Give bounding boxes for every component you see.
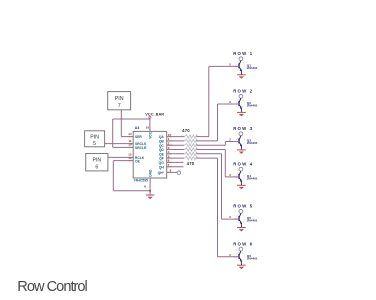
- transistor Q2 2N4401: [236, 98, 245, 112]
- pin 1 stub/wire: [167, 140, 184, 142]
- svg-text:ROW 1: ROW 1: [233, 51, 253, 56]
- pin 6 stub/wire: [167, 161, 184, 163]
- pin stub base Q3: [234, 141, 239, 143]
- pin stub left: [128, 146, 133, 148]
- pin 5 stub/wire: [167, 157, 184, 159]
- row output pin circle ROW 4: [239, 167, 243, 171]
- svg-text:2N4401: 2N4401: [247, 141, 258, 145]
- svg-text:Row Control: Row Control: [17, 279, 88, 295]
- wire PIN7 to IC pin 14 (SER): [121, 110, 133, 137]
- pin 9 QH* stub and open circle: [167, 171, 181, 174]
- pin 15 stub/wire: [167, 136, 184, 138]
- svg-text:16: 16: [146, 126, 150, 130]
- svg-text:U3: U3: [135, 126, 140, 130]
- wire resistor R4 to transistor Q4 base: [196, 150, 239, 177]
- svg-text:470: 470: [187, 161, 195, 166]
- ground symbol (Q1 emitter): [237, 75, 246, 79]
- ground symbol (Q4 emitter): [237, 185, 246, 189]
- ground symbol (Q5 emitter): [237, 228, 246, 232]
- resistor R4 470: [184, 148, 198, 151]
- resistor R5 470: [184, 152, 198, 155]
- svg-text:2N4401: 2N4401: [247, 256, 258, 260]
- svg-text:ROW 6: ROW 6: [233, 241, 253, 246]
- pin stub base Q5: [234, 218, 239, 220]
- svg-text:SER: SER: [135, 135, 142, 139]
- resistor R1 470: [184, 135, 198, 138]
- wire resistor R1 to transistor Q1 base: [196, 66, 239, 136]
- svg-text:QH*: QH*: [158, 171, 165, 175]
- ground symbol under IC: [146, 195, 155, 199]
- svg-text:ROW 5: ROW 5: [233, 204, 253, 209]
- row output pin circle ROW 2: [239, 94, 243, 98]
- resistor R3 470: [184, 144, 198, 147]
- row output pin circle ROW 3: [239, 132, 243, 136]
- row output pin circle ROW 6: [239, 247, 243, 251]
- pin stub left: [128, 156, 133, 158]
- resistor R6 470: [184, 156, 198, 159]
- wire resistor R3 to transistor Q3 base: [196, 142, 239, 146]
- transistor Q3 2N4401: [236, 136, 245, 150]
- pin stub base Q1: [234, 65, 239, 67]
- svg-text:PIN: PIN: [90, 134, 99, 140]
- connector box PIN 5: [85, 131, 105, 147]
- pin stub base Q4: [234, 176, 239, 178]
- svg-text:OE: OE: [135, 160, 141, 164]
- wire VCC_BAR branch to IC pin 10 (SRCLR): [113, 119, 150, 147]
- svg-text:2N4401: 2N4401: [247, 66, 258, 70]
- transistor Q5 2N4401: [236, 213, 245, 227]
- connector box PIN 7: [108, 92, 131, 110]
- wire resistor R6 to transistor Q6 base: [196, 158, 239, 257]
- svg-text:2N4401: 2N4401: [247, 219, 258, 223]
- pin stub base Q2: [234, 103, 239, 105]
- wire PIN5 to IC pin 11 (SRCLK): [105, 143, 134, 145]
- pin stub left: [128, 136, 133, 138]
- wire IC pin 13 (OE) to ground net: [113, 161, 150, 191]
- svg-text:470: 470: [182, 128, 190, 133]
- wire VCC_BAR to IC pin 16: [149, 119, 151, 132]
- transistor Q4 2N4401: [236, 171, 245, 185]
- svg-text:VCC: VCC: [149, 131, 153, 139]
- wire resistor R2 to transistor Q2 base: [196, 104, 239, 141]
- pin 4 stub/wire: [167, 153, 184, 155]
- svg-text:5: 5: [93, 141, 96, 147]
- wire PIN6 to IC pin 12 (RCLK): [108, 156, 133, 158]
- svg-text:14: 14: [128, 132, 132, 136]
- svg-text:74HC595: 74HC595: [134, 179, 148, 183]
- pin stub left: [128, 160, 133, 162]
- pin 7 stub/wire: [167, 166, 184, 168]
- svg-text:2N4401: 2N4401: [247, 104, 258, 108]
- svg-text:ROW 2: ROW 2: [233, 89, 253, 94]
- ground symbol (Q2 emitter): [237, 112, 246, 116]
- ground symbol (Q3 emitter): [237, 150, 246, 154]
- transistor Q1 2N4401: [236, 61, 245, 75]
- svg-text:VCC_BAR: VCC_BAR: [145, 111, 164, 116]
- row output pin circle ROW 1: [239, 57, 243, 61]
- svg-text:7: 7: [118, 103, 121, 109]
- transistor Q6 2N4401: [236, 251, 245, 265]
- pin stub left: [128, 143, 133, 145]
- svg-text:ROW 4: ROW 4: [233, 161, 253, 166]
- power symbol VCC_BAR: [145, 111, 164, 118]
- pin 2 stub/wire: [167, 144, 184, 146]
- svg-text:PIN: PIN: [115, 96, 124, 102]
- connector box PIN 6: [86, 154, 108, 171]
- IC U3 74HC595 body: [133, 131, 167, 178]
- svg-text:QH: QH: [159, 165, 165, 169]
- svg-text:ROW 3: ROW 3: [233, 126, 253, 131]
- pin 3 stub/wire: [167, 149, 184, 151]
- svg-text:2N4401: 2N4401: [247, 177, 258, 181]
- svg-text:6: 6: [95, 165, 98, 171]
- pin stub base Q6: [234, 256, 239, 258]
- wire resistor R5 to transistor Q5 base: [196, 154, 239, 219]
- resistor R2 470: [184, 139, 198, 142]
- junction OE/GND net: [149, 190, 151, 192]
- wire IC pin 8 (GND) down: [149, 178, 151, 195]
- svg-text:GND: GND: [149, 169, 153, 177]
- svg-text:PIN: PIN: [92, 158, 101, 164]
- svg-text:SRCLR: SRCLR: [135, 146, 147, 150]
- ground symbol (Q6 emitter): [237, 265, 246, 269]
- row output pin circle ROW 5: [239, 210, 243, 214]
